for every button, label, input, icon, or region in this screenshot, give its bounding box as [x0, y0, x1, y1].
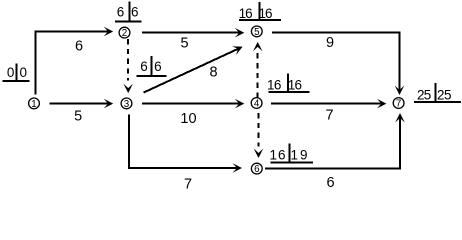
svg-text:2: 2	[122, 28, 127, 39]
svg-text:6: 6	[131, 5, 139, 20]
svg-text:10: 10	[180, 111, 196, 127]
svg-text:9: 9	[326, 35, 334, 51]
svg-text:1: 1	[31, 99, 36, 110]
svg-text:6: 6	[327, 175, 335, 189]
svg-text:6: 6	[154, 59, 162, 74]
svg-text:6: 6	[294, 78, 302, 93]
svg-text:6: 6	[140, 59, 148, 74]
svg-text:6: 6	[75, 38, 83, 54]
svg-text:7: 7	[184, 177, 192, 189]
svg-text:4: 4	[254, 99, 260, 110]
svg-text:8: 8	[209, 65, 217, 81]
svg-text:9: 9	[300, 147, 308, 162]
svg-text:5: 5	[424, 88, 432, 103]
svg-text:6: 6	[278, 147, 286, 162]
svg-text:5: 5	[74, 109, 82, 125]
svg-text:7: 7	[325, 108, 333, 124]
svg-text:6: 6	[265, 6, 273, 21]
svg-text:1: 1	[269, 147, 277, 162]
svg-text:6: 6	[117, 5, 125, 20]
svg-text:0: 0	[20, 65, 28, 80]
svg-text:6: 6	[245, 6, 253, 21]
svg-text:5: 5	[444, 88, 452, 103]
svg-text:6: 6	[274, 78, 282, 93]
svg-text:0: 0	[7, 65, 15, 80]
svg-text:7: 7	[396, 99, 401, 110]
svg-text:5: 5	[180, 35, 188, 51]
svg-text:6: 6	[254, 164, 260, 175]
svg-text:3: 3	[124, 99, 130, 110]
svg-text:5: 5	[254, 27, 260, 38]
svg-text:1: 1	[290, 147, 298, 162]
